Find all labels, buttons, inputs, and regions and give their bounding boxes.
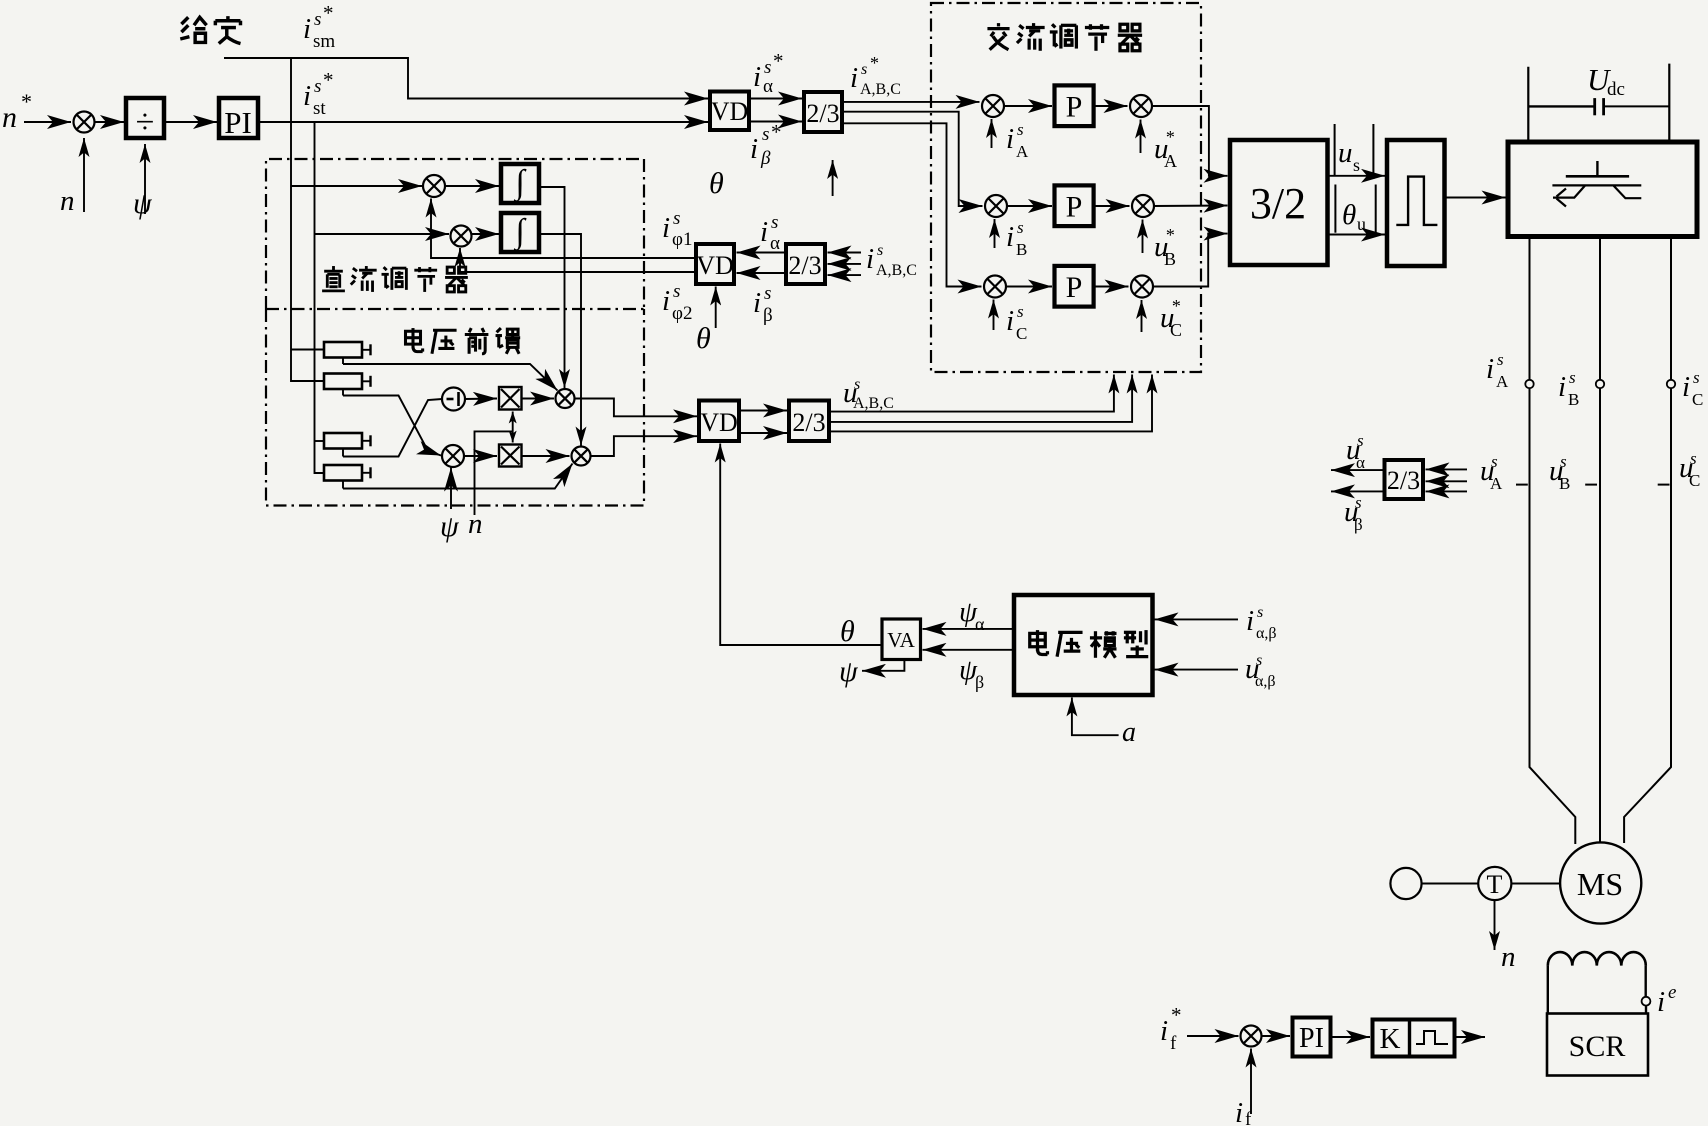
svg-text:s: s xyxy=(1690,449,1697,468)
svg-text:β: β xyxy=(1354,515,1363,534)
wire psi_beta to VA xyxy=(923,649,1015,651)
wire n* to multiplier xyxy=(24,121,71,123)
svg-text:i: i xyxy=(1235,1097,1243,1126)
svg-text:A: A xyxy=(1490,474,1503,493)
wire u_B feedback xyxy=(829,375,1132,422)
svg-text:*: * xyxy=(773,49,784,73)
wire PI output i_st to VD1 xyxy=(258,121,708,123)
svg-text:ψ: ψ xyxy=(839,655,859,688)
svg-text:i: i xyxy=(753,61,761,93)
svg-text:C: C xyxy=(1692,390,1703,409)
block VD2 xyxy=(696,244,734,284)
svg-text:s: s xyxy=(1497,350,1504,369)
svg-text:A: A xyxy=(1164,151,1177,171)
svg-text:β: β xyxy=(760,148,771,169)
svg-text:s: s xyxy=(764,283,771,304)
wire integrator1 out down to X6 xyxy=(539,187,565,388)
wire psi up into divider xyxy=(144,144,146,214)
wire u_s out with bars xyxy=(1334,124,1336,175)
svg-text:A,B,C: A,B,C xyxy=(876,262,917,279)
wire -1 to multbox M1 xyxy=(465,398,497,401)
wire PI2 to K xyxy=(1331,1036,1371,1038)
multiplier XA1 xyxy=(982,95,1004,117)
svg-text:s: s xyxy=(1017,218,1024,237)
multiplier X1 (speed error) xyxy=(74,112,95,133)
wire n out of T xyxy=(1494,900,1496,950)
block 3/2 xyxy=(1230,140,1328,265)
svg-text:ψ: ψ xyxy=(133,187,153,220)
label geiding (reference) xyxy=(180,16,240,43)
svg-text:s: s xyxy=(1491,452,1498,471)
wire i_f* to Xf xyxy=(1187,1035,1239,1037)
svg-text:s: s xyxy=(1017,302,1024,321)
svg-text:s: s xyxy=(1353,155,1360,175)
svg-text:sm: sm xyxy=(313,31,335,52)
wire X7 out to VD3 xyxy=(591,436,698,456)
svg-text:θ: θ xyxy=(1342,199,1356,231)
svg-text:s: s xyxy=(771,212,778,233)
svg-text:i: i xyxy=(303,13,311,45)
potentiometer R1 xyxy=(324,342,362,358)
encoder circle xyxy=(1390,868,1421,899)
svg-text:B: B xyxy=(1016,240,1027,259)
multiplier X3 xyxy=(451,226,472,247)
svg-text:VA: VA xyxy=(887,628,915,652)
wire P to XB2 xyxy=(1094,205,1130,207)
wire 2/3-1 line A to XA1 xyxy=(842,101,980,103)
svg-text:i: i xyxy=(662,285,670,317)
svg-text:P: P xyxy=(1066,91,1083,124)
wire i_A feedback arrow xyxy=(991,119,993,148)
svg-text:P: P xyxy=(1066,271,1083,304)
wire i_st to X3 xyxy=(315,233,450,235)
wire i_st to pot R4 xyxy=(315,441,325,473)
wire M2 to X7 xyxy=(522,455,570,457)
multiplier box M1 xyxy=(499,387,522,410)
svg-text:n: n xyxy=(60,185,75,217)
wire R2 tap cross to X5 xyxy=(343,396,441,456)
wire psi out of VA xyxy=(862,660,904,671)
wire u_A feedback xyxy=(829,375,1114,412)
svg-text:i: i xyxy=(662,212,670,244)
svg-text:dc: dc xyxy=(1607,79,1625,100)
multiplier box M2 xyxy=(499,445,522,467)
field winding inductor xyxy=(1548,952,1646,966)
wire i_sm to pot R1 xyxy=(291,349,324,351)
svg-text:2/3: 2/3 xyxy=(792,408,825,437)
svg-text:φ1: φ1 xyxy=(672,229,692,250)
svg-text:s: s xyxy=(314,76,321,97)
svg-text:i: i xyxy=(753,287,761,319)
wire i_B feedback arrow xyxy=(994,219,996,248)
svg-text:β: β xyxy=(975,672,984,692)
svg-text:α,β: α,β xyxy=(1255,673,1276,690)
wire phase C line xyxy=(1670,237,1672,381)
wire i_f feedback up xyxy=(1250,1049,1252,1115)
wire double arrow between M1 M2 xyxy=(512,412,514,432)
block 2/3 #4 xyxy=(1385,460,1424,499)
inverter transistor symbol xyxy=(1596,161,1598,176)
svg-text:α: α xyxy=(763,76,773,97)
potentiometer R4 xyxy=(324,465,362,481)
wire phase A line xyxy=(1529,237,1531,381)
wire tick u_C xyxy=(1658,484,1670,486)
svg-text:α: α xyxy=(1356,453,1365,472)
svg-text:A: A xyxy=(1016,142,1029,161)
svg-text:s: s xyxy=(854,376,860,393)
svg-text:B: B xyxy=(1164,249,1176,269)
wire u_alpha out xyxy=(1331,469,1385,471)
svg-text:÷: ÷ xyxy=(136,104,155,141)
svg-text:i: i xyxy=(760,216,768,248)
wire integrator2 out down to X7 xyxy=(539,234,581,446)
block PI2 field regulator xyxy=(1293,1018,1331,1057)
block 2/3 #1 xyxy=(804,92,842,132)
wire R4 tap to X7 xyxy=(343,464,573,489)
wire Xf to PI2 xyxy=(1262,1035,1290,1037)
multiplier XB2 xyxy=(1132,195,1154,217)
svg-text:i: i xyxy=(750,133,758,165)
svg-text:i: i xyxy=(850,62,858,94)
node i_B circle xyxy=(1596,380,1604,388)
block 2/3 #2 xyxy=(786,244,825,284)
svg-text:2/3: 2/3 xyxy=(788,251,821,280)
wire VD1 to 2/3-1 top xyxy=(749,98,802,100)
svg-text:i: i xyxy=(1657,986,1665,1018)
motor MS circle xyxy=(1560,842,1641,923)
wire X2 to integrator 1 xyxy=(445,185,499,187)
wire i_sm to pot R2 xyxy=(291,350,324,382)
svg-text:s: s xyxy=(1017,120,1024,139)
svg-text:SCR: SCR xyxy=(1569,1030,1626,1063)
multiplier X6 xyxy=(556,389,575,408)
dashed box voltage feedforward xyxy=(266,309,644,506)
label AC regulator (jiaoliu tiaojieqi) xyxy=(987,23,1142,51)
svg-text:φ2: φ2 xyxy=(672,303,692,324)
wire theta into VD2 xyxy=(715,287,717,329)
svg-text:*: * xyxy=(323,1,334,25)
svg-text:i: i xyxy=(1486,353,1494,385)
wire theta arrow up to 2/3-1 xyxy=(832,160,834,196)
svg-text:VD: VD xyxy=(711,97,749,126)
svg-text:n: n xyxy=(2,101,17,134)
svg-text:*: * xyxy=(1171,1003,1182,1027)
svg-text:s: s xyxy=(673,208,680,229)
wire 2/3-1 line B to XB1 xyxy=(842,112,983,206)
wire pot R4 tap xyxy=(342,481,344,489)
wire u_A* arrow xyxy=(1140,120,1142,154)
wire iABC into 2/3-2 (three) xyxy=(828,252,862,254)
svg-text:i: i xyxy=(1558,371,1566,403)
wire winding left lead xyxy=(1547,966,1549,1014)
tacho T circle xyxy=(1478,867,1511,900)
wire i_sm reference line with step xyxy=(224,58,708,99)
wire theta from VA up to VD3 xyxy=(720,444,882,646)
block PWM pulse generator xyxy=(1387,140,1445,266)
svg-text:s: s xyxy=(762,124,769,145)
svg-text:*: * xyxy=(870,53,879,73)
svg-text:B: B xyxy=(1559,474,1570,493)
wire u_alphabeta into model xyxy=(1155,669,1239,671)
dashed box DC regulator xyxy=(266,159,644,309)
svg-text:s: s xyxy=(1569,368,1576,387)
svg-text:C: C xyxy=(1689,471,1700,490)
wires into 2/3-4 xyxy=(1426,468,1468,470)
svg-text:VD: VD xyxy=(700,408,738,437)
wire K out xyxy=(1455,1036,1486,1038)
dashed box AC regulator xyxy=(931,3,1201,372)
wire XC2 out to 3/2 xyxy=(1153,234,1228,287)
svg-text:θ: θ xyxy=(840,615,855,648)
wire X6 out to VD3 xyxy=(575,399,698,417)
wire n input to multboxes xyxy=(475,431,513,515)
wire divider to PI xyxy=(164,121,217,123)
svg-text:a: a xyxy=(1122,717,1136,748)
wire 2/3-2 to VD2 i_beta xyxy=(737,272,787,274)
svg-text:i: i xyxy=(1246,605,1254,637)
svg-text:f: f xyxy=(1170,1033,1177,1054)
svg-text:u: u xyxy=(1357,214,1366,234)
wire XB1 to P xyxy=(1007,205,1052,207)
svg-text:s: s xyxy=(1693,368,1700,387)
svg-text:s: s xyxy=(1560,452,1567,471)
block VD3 vector rotator xyxy=(699,401,739,442)
block VD1 xyxy=(710,92,749,131)
label DC regulator (zhiliu tiaojieqi) xyxy=(322,266,468,292)
svg-text:θ: θ xyxy=(696,322,711,355)
wire i_phi2 feedback to X3 xyxy=(460,248,696,272)
capacitor U_dc xyxy=(1528,105,1594,107)
svg-text:s: s xyxy=(764,57,771,78)
node i^e circle xyxy=(1642,997,1651,1006)
wire phase B line xyxy=(1599,237,1601,381)
svg-text:f: f xyxy=(1245,1109,1252,1126)
wire pot R1 tap xyxy=(342,358,344,365)
label voltage feedforward (dianya qiankui) xyxy=(405,328,520,354)
svg-text:st: st xyxy=(313,98,326,119)
wire tick u_A xyxy=(1516,484,1528,486)
svg-text:A: A xyxy=(1496,372,1509,391)
wire i_sm vertical branch xyxy=(290,58,292,350)
block P B xyxy=(1055,185,1094,226)
block voltage model (dianya moxing) xyxy=(1014,595,1153,695)
wire XB2 out to 3/2 xyxy=(1154,205,1228,208)
wire 2/3-2 to VD2 i_alpha xyxy=(737,252,787,254)
block VA xyxy=(882,619,921,660)
wire VD3 to 2/3-3 bottom xyxy=(739,432,787,434)
svg-text:e: e xyxy=(1668,982,1676,1003)
svg-text:n: n xyxy=(1501,941,1516,973)
wire i_C feedback arrow xyxy=(993,300,995,331)
wire DC rail left xyxy=(1527,67,1529,142)
node i_C circle xyxy=(1667,380,1675,388)
svg-text:β: β xyxy=(763,305,773,326)
svg-text:s: s xyxy=(1355,493,1362,512)
svg-text:α,β: α,β xyxy=(1256,625,1277,642)
wire 2/3-1 line C to XC1 xyxy=(842,123,982,286)
svg-text:α: α xyxy=(975,614,985,634)
svg-text:2/3: 2/3 xyxy=(1387,466,1420,495)
wire u_beta out xyxy=(1331,490,1385,492)
svg-text:PI: PI xyxy=(1299,1023,1324,1054)
multiplier XC2 xyxy=(1131,276,1153,298)
wire psi_alpha to VA xyxy=(923,628,1015,630)
svg-text:C: C xyxy=(1170,320,1182,340)
wire VD1 to 2/3-1 bottom xyxy=(749,121,802,123)
svg-text:P: P xyxy=(1066,191,1083,224)
svg-text:PI: PI xyxy=(224,105,252,140)
wire i_st to pot R3 xyxy=(315,440,325,442)
multiplier X7 xyxy=(572,447,591,466)
wire pot R3 tap xyxy=(342,449,344,457)
svg-text:i: i xyxy=(1682,371,1690,403)
svg-text:s: s xyxy=(877,242,883,259)
svg-text:*: * xyxy=(1171,296,1180,316)
svg-text:i: i xyxy=(1006,305,1014,337)
wire M1 to X6 xyxy=(522,398,555,400)
wire P to XC2 xyxy=(1094,286,1129,288)
svg-text:s: s xyxy=(1256,652,1262,669)
block inverter xyxy=(1508,142,1697,237)
svg-text:s: s xyxy=(1257,604,1263,621)
multiplier Xf xyxy=(1241,1026,1262,1047)
potentiometer R3 xyxy=(324,433,362,449)
block PI speed regulator xyxy=(219,98,258,138)
svg-text:i: i xyxy=(1160,1015,1168,1047)
svg-text:*: * xyxy=(771,120,782,144)
wire XC1 to P xyxy=(1006,286,1052,288)
potentiometer R2 xyxy=(324,374,362,390)
wire X5 to multbox M2 xyxy=(464,455,497,457)
svg-text:A,B,C: A,B,C xyxy=(860,81,901,98)
svg-text:*: * xyxy=(1165,127,1174,147)
wire u_C feedback xyxy=(829,375,1152,432)
wire n feedback up into X1 xyxy=(83,138,85,212)
integrator block 1 xyxy=(501,164,539,203)
svg-text:3/2: 3/2 xyxy=(1250,179,1306,228)
svg-text:MS: MS xyxy=(1577,866,1623,902)
svg-text:*: * xyxy=(323,68,334,92)
wire winding right lead xyxy=(1644,966,1646,997)
wire i_st vertical branch xyxy=(314,122,316,441)
multiplier X5 xyxy=(442,445,464,467)
svg-text:i: i xyxy=(1006,123,1014,155)
svg-text:u: u xyxy=(1338,137,1353,169)
svg-text:K: K xyxy=(1380,1023,1401,1055)
wire encoder to T xyxy=(1422,883,1479,885)
gain -1 circle xyxy=(442,388,465,411)
block K thyristor firing xyxy=(1373,1020,1455,1057)
wire X1 to divider xyxy=(95,121,124,123)
svg-text:ψ: ψ xyxy=(440,510,460,543)
wire psi input to X5 xyxy=(450,468,452,510)
wire X3 to integrator 2 xyxy=(472,233,499,235)
block P C xyxy=(1055,266,1094,307)
divider block / xyxy=(126,98,164,138)
svg-text:s: s xyxy=(1357,431,1364,450)
wire XA2 out to 3/2 xyxy=(1152,106,1228,176)
svg-text:i: i xyxy=(303,80,311,112)
wire DC rail right xyxy=(1668,64,1670,142)
svg-text:i: i xyxy=(866,243,874,275)
wire tick u_B xyxy=(1585,484,1597,486)
svg-text:s: s xyxy=(314,9,321,30)
svg-text:B: B xyxy=(1568,390,1579,409)
multiplier XC1 xyxy=(984,276,1006,298)
wire XA1 to P xyxy=(1004,105,1052,107)
wire a input xyxy=(1072,698,1119,736)
svg-text:α: α xyxy=(770,233,780,254)
svg-text:n: n xyxy=(468,508,483,540)
wire i_sm to X2 xyxy=(291,185,422,187)
svg-text:*: * xyxy=(1165,225,1174,245)
wire u_C* arrow xyxy=(1141,300,1143,332)
block SCR xyxy=(1547,1014,1648,1076)
multiplier XB1 xyxy=(985,195,1007,217)
svg-text:A,B,C: A,B,C xyxy=(853,395,894,412)
wire R1 tap to X6 xyxy=(343,364,558,391)
svg-text:*: * xyxy=(21,89,32,114)
svg-text:T: T xyxy=(1487,870,1503,899)
multiplier XA2 xyxy=(1130,95,1152,117)
wire R3 tap cross to inverter-gain xyxy=(343,399,442,457)
wire PWM to inverter xyxy=(1445,197,1506,199)
wire T to MS xyxy=(1511,883,1560,885)
multiplier X2 xyxy=(423,175,445,197)
svg-text:θ: θ xyxy=(709,167,724,200)
block P A xyxy=(1055,85,1094,126)
wire P to XA2 xyxy=(1094,105,1128,107)
integrator block 2 xyxy=(501,213,539,252)
block 2/3 #3 xyxy=(789,401,829,442)
node i_A circle xyxy=(1525,380,1533,388)
wire theta_u out with bars xyxy=(1334,185,1336,233)
wire i_phi1 feedback to X2 xyxy=(431,199,696,259)
wire u_B* arrow xyxy=(1142,220,1144,254)
svg-text:s: s xyxy=(861,61,867,78)
svg-text:VD: VD xyxy=(696,251,734,280)
wire pot R2 tap xyxy=(342,389,344,396)
svg-text:C: C xyxy=(1016,324,1027,343)
wire i_alphabeta into model xyxy=(1155,618,1239,620)
svg-text:i: i xyxy=(1006,221,1014,253)
svg-text:s: s xyxy=(673,281,680,302)
svg-text:2/3: 2/3 xyxy=(806,99,839,128)
wire VD3 to 2/3-3 top xyxy=(739,410,787,412)
